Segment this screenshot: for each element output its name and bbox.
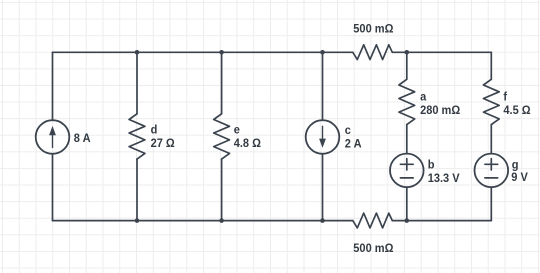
wire between f and g (490, 125, 492, 154)
node bottom e (219, 218, 224, 223)
wire left branch bottom (52, 154, 54, 221)
voltage source b 13.3V (390, 154, 424, 188)
node top c (320, 50, 325, 55)
wire bottom rail right segment (392, 220, 491, 222)
wire bottom rail left segment (53, 220, 353, 222)
wire branch e top (221, 52, 223, 114)
wire top rail left segment (53, 51, 353, 53)
svg-text:500 mΩ: 500 mΩ (353, 243, 393, 255)
svg-text:b: b (428, 159, 435, 171)
current source c 2A (306, 120, 340, 154)
svg-text:280 mΩ: 280 mΩ (420, 105, 460, 117)
svg-text:4.8 Ω: 4.8 Ω (234, 138, 261, 150)
svg-text:a: a (420, 91, 427, 103)
svg-text:g: g (512, 159, 519, 171)
wire branch c top (322, 52, 324, 120)
node bottom d (135, 218, 140, 223)
svg-text:c: c (345, 125, 352, 137)
resistor 500 mΩ (top) (353, 45, 393, 60)
wire top rail right segment (392, 51, 491, 53)
wire branch e bottom (221, 159, 223, 221)
node bottom b (405, 218, 410, 223)
current source 8 A (36, 120, 70, 154)
wire branch c bottom (322, 154, 324, 221)
wire branch d top (136, 52, 138, 114)
wire branch a top (406, 52, 408, 79)
svg-text:8 A: 8 A (74, 132, 91, 144)
svg-text:e: e (234, 124, 241, 136)
voltage source g 9V (475, 154, 509, 188)
svg-text:27 Ω: 27 Ω (151, 138, 175, 150)
resistor f 4.5Ω (483, 79, 499, 124)
svg-text:9 V: 9 V (511, 172, 528, 184)
resistor a 280 mΩ (399, 79, 415, 124)
svg-text:500 mΩ: 500 mΩ (353, 23, 393, 35)
wire between a and b (406, 125, 408, 154)
resistor 500 mΩ (bottom) (353, 213, 393, 228)
wire branch d bottom (136, 159, 138, 221)
wire branch f top (490, 52, 492, 79)
wire branch g bottom (490, 187, 492, 220)
wire left branch top (52, 52, 54, 120)
svg-text:13.3 V: 13.3 V (428, 173, 460, 185)
node top a (405, 50, 410, 55)
resistor e 4.8Ω (214, 114, 230, 159)
svg-text:d: d (151, 124, 158, 136)
node top d (135, 50, 140, 55)
svg-text:2 A: 2 A (345, 138, 362, 150)
node top e (219, 50, 224, 55)
resistor d 27Ω (129, 114, 145, 159)
wire branch b bottom (406, 187, 408, 220)
node bottom c (320, 218, 325, 223)
svg-text:f: f (503, 91, 507, 103)
svg-text:4.5 Ω: 4.5 Ω (503, 105, 530, 117)
